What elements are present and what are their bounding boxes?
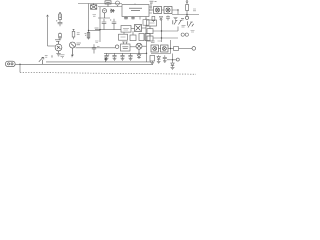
wire bias rail2 <box>153 37 178 39</box>
node label PW <box>105 1 111 7</box>
wire stub <box>177 27 179 32</box>
resistor R16 <box>147 29 153 34</box>
pin 1 stub <box>125 17 127 20</box>
wire output rail <box>172 14 199 16</box>
fuse F1 <box>174 47 179 51</box>
wire lamp link <box>142 45 147 47</box>
transistor T2 <box>70 42 76 56</box>
relay K5 <box>161 45 168 52</box>
ground <box>151 63 155 65</box>
pin 4 stub <box>145 17 147 20</box>
wire top rail <box>78 3 122 5</box>
resistor R3 <box>85 33 90 39</box>
wire right drop <box>172 54 174 64</box>
tick mark <box>51 56 53 58</box>
value label SS <box>182 26 186 28</box>
ground <box>157 61 161 63</box>
wire right column <box>146 41 148 62</box>
ground <box>171 67 175 69</box>
capacitor C9 <box>166 16 170 21</box>
wire top link <box>167 59 176 61</box>
capacitor C5 <box>110 19 116 30</box>
capacitor C8 <box>131 18 135 19</box>
wire main vertical <box>99 18 101 31</box>
ground <box>58 38 62 40</box>
wire relay feed <box>149 9 154 11</box>
ground <box>163 61 167 63</box>
wire emitter branch <box>88 4 90 40</box>
capacitor C12 <box>120 53 124 60</box>
relay K2 <box>164 7 172 14</box>
wire IC right pins <box>149 7 152 13</box>
value label <box>55 40 61 42</box>
op-amp IC1 <box>122 5 149 17</box>
wire column link <box>149 26 151 36</box>
wire S1 link <box>124 31 133 35</box>
lamp X1 <box>135 25 142 32</box>
tick mark <box>71 55 73 57</box>
resistor R15 <box>147 20 157 26</box>
connector J1 <box>6 61 16 66</box>
pin 2 stub <box>132 17 134 20</box>
wire lower rail A <box>46 61 151 63</box>
junction dot <box>19 9 187 65</box>
wire lamp out <box>142 27 147 29</box>
value label <box>45 56 48 58</box>
wire timer out <box>130 46 136 48</box>
value label <box>150 1 157 3</box>
ground <box>56 54 60 56</box>
diode D8 <box>171 63 174 67</box>
capacitor C13 <box>128 53 132 60</box>
wire to terminal <box>179 48 193 50</box>
capacitor C4 <box>102 19 107 30</box>
wire base link <box>48 45 56 47</box>
wire shield drop <box>19 64 21 72</box>
node A circle <box>116 1 120 7</box>
terminal pair <box>181 33 188 36</box>
diode D1 <box>110 9 115 13</box>
value label <box>151 41 162 43</box>
relay K4 <box>151 45 158 52</box>
regulator U2 <box>121 26 131 33</box>
wire long vertical <box>47 15 49 46</box>
resistor R11 <box>152 16 155 22</box>
capacitor C6 <box>92 44 96 53</box>
value label <box>95 41 99 43</box>
value label <box>97 46 100 48</box>
wire between <box>158 48 160 50</box>
value label <box>191 31 195 33</box>
transistor T3 <box>39 57 44 64</box>
resistor R18 <box>150 56 155 63</box>
junction node <box>104 54 109 62</box>
diode D5 <box>160 17 163 22</box>
value label <box>77 33 80 35</box>
value label <box>77 43 82 45</box>
pin 3 stub <box>139 17 141 20</box>
transistor Q2 <box>187 21 193 27</box>
lamp X2 <box>136 43 142 53</box>
wire left drop <box>98 7 110 18</box>
terminal J2 <box>185 15 188 20</box>
value label <box>93 15 97 17</box>
resistor R17 <box>147 36 153 41</box>
terminal J3 <box>115 45 119 49</box>
value label <box>181 18 184 20</box>
resistor R10 <box>186 1 189 15</box>
value label <box>95 28 99 30</box>
value label <box>193 9 196 11</box>
terminal J4 <box>192 47 196 51</box>
relay K3 <box>130 35 136 41</box>
wire lower rail B <box>47 63 153 65</box>
resistor R12 <box>143 20 149 26</box>
timer U3 <box>121 42 131 51</box>
ground <box>174 18 178 20</box>
wire relay out <box>172 10 178 15</box>
transistor T1 <box>55 42 62 54</box>
wire mid drop <box>99 30 101 42</box>
terminal small <box>176 58 179 61</box>
dashed separator <box>20 72 196 74</box>
capacitor C10 <box>104 53 108 60</box>
transistor Q1 <box>173 20 182 24</box>
battery B1 <box>91 4 97 10</box>
diode D7 <box>157 55 160 61</box>
wire feed vertical <box>170 40 172 54</box>
resistor R2 <box>72 29 75 39</box>
capacitor C1 <box>102 9 106 18</box>
capacitor C3 <box>59 33 62 37</box>
wire bias rail1 <box>153 30 178 32</box>
resistor R1 <box>59 13 62 20</box>
relay K1 <box>154 7 162 14</box>
wire lower link <box>151 53 171 55</box>
wire mid bus <box>98 29 121 31</box>
wire U2 out <box>131 28 135 30</box>
wire between relays <box>162 9 165 11</box>
wire second top rail <box>98 6 122 8</box>
diode D6 <box>137 53 141 59</box>
resistor R14 <box>145 34 150 41</box>
wire right long vertical <box>161 20 163 42</box>
capacitor C2 <box>56 20 62 27</box>
capacitor C14 <box>163 55 167 60</box>
wire branch to node <box>89 30 101 32</box>
resistor R13 <box>139 34 144 41</box>
wire out <box>168 48 174 50</box>
wire input <box>15 63 47 65</box>
wire collector rail <box>76 47 116 49</box>
value label <box>60 55 65 58</box>
wire column feed <box>145 18 147 41</box>
wire ground bus <box>104 52 147 54</box>
capacitor C7 <box>124 18 128 19</box>
switch S1 <box>119 34 128 40</box>
wire IC top feed <box>135 3 151 10</box>
capacitor C11 <box>112 53 116 60</box>
